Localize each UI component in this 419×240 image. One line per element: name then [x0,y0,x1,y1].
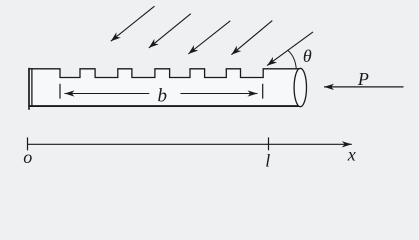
axis origin tick [27,137,29,150]
svg-text:θ: θ [303,46,312,66]
bar with castellated (threaded) top profile [29,69,300,107]
angle arc [288,50,297,69]
incident arrow 4 [231,21,272,55]
cylinder end ellipse [294,68,306,106]
left end cap: inner line [31,68,33,106]
incident arrow 5 (at angle theta) [267,32,313,66]
dimension b : left tick [59,84,61,99]
incident arrow 2 [149,14,191,48]
dimension b : left arrow [65,93,150,95]
dimension b : right tick [262,84,264,99]
left end cap: outer line [28,68,30,110]
svg-text:x: x [347,144,356,164]
dimension b : right arrow [180,93,257,95]
svg-text:b: b [158,85,168,106]
bar bottom line (slightly heavier) [29,105,300,107]
x axis line [28,143,352,145]
incident arrow 3 [188,21,230,54]
axis tick at l [268,137,270,150]
svg-text:o: o [23,147,32,167]
svg-text:P: P [357,69,369,89]
incident arrow 1 [111,6,155,41]
svg-text:l: l [265,150,270,170]
force P arrow [324,86,404,88]
